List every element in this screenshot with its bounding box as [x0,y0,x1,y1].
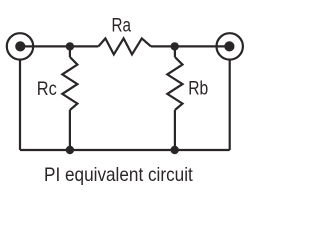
wire: Rb to bottom rail [174,110,176,150]
svg-text:Rb: Rb [188,77,208,99]
wire: Ra to right terminal [151,45,230,47]
resistor Rb (right vertical zigzag) [167,57,182,110]
terminal T1 (left) outer circle [7,33,33,59]
svg-text:Rc: Rc [37,78,57,100]
terminal T2 (right) center dot [224,41,234,51]
resistor Rc (left vertical zigzag) [62,57,77,110]
terminal T2 (right) outer circle [217,33,243,59]
wire: right terminal down [229,60,231,150]
node B (top-right junction dot) [171,42,179,50]
wire: node A down to Rc [69,46,71,57]
wire: left terminal down [19,60,21,150]
wire: Rc to bottom rail [69,110,71,150]
svg-text:Ra: Ra [111,14,131,36]
node D (bottom-right junction dot) [171,146,179,154]
svg-text:PI equivalent circuit: PI equivalent circuit [44,163,193,185]
wire: left terminal to Ra [20,45,98,47]
terminal T1 (left) center dot [15,41,25,51]
node C (bottom-left junction dot) [66,146,74,154]
wire: node B down to Rb [174,46,176,57]
wire: bottom rail [20,149,230,151]
node A (top-left junction dot) [66,42,74,50]
resistor Ra (top horizontal zigzag) [98,38,151,54]
